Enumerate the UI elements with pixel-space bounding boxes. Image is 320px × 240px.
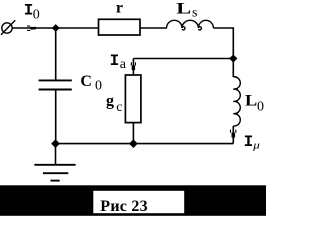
wire: box to bottom rail xyxy=(132,123,134,144)
svg-text:μ: μ xyxy=(252,140,260,151)
svg-text:C: C xyxy=(80,73,92,90)
ground xyxy=(34,144,75,181)
resistor r xyxy=(99,19,141,35)
svg-text:g: g xyxy=(106,92,114,109)
wire: source to resistor xyxy=(12,27,98,29)
caption black band xyxy=(0,185,266,216)
svg-text:0: 0 xyxy=(257,100,264,115)
node junction B (right rail, middle tap) xyxy=(229,54,237,62)
wire: Ia branch down to box xyxy=(132,59,134,76)
wire: coil to top-right corner, down right rail xyxy=(213,28,233,77)
current arrow Ia (downward) xyxy=(131,62,136,71)
current arrow I0 (rightward) xyxy=(27,26,37,32)
svg-text:L: L xyxy=(176,0,191,17)
wire: coil to bottom corner xyxy=(232,126,234,144)
middle horizontal wire xyxy=(133,58,233,60)
inductor L0 (right rail) xyxy=(233,77,240,126)
svg-text:L: L xyxy=(245,91,257,109)
svg-text:Рис 23: Рис 23 xyxy=(100,198,148,215)
current arrow Imu (downward, right rail) xyxy=(230,130,237,139)
wire: left vertical to capacitor xyxy=(55,28,57,80)
node junction C (bottom-left) xyxy=(51,139,60,148)
svg-text:0: 0 xyxy=(33,7,40,22)
wire: capacitor to bottom rail xyxy=(55,90,57,143)
svg-text:s: s xyxy=(192,6,197,21)
svg-text:a: a xyxy=(120,57,127,72)
svg-text:r: r xyxy=(116,0,123,17)
inductor L0 cusp knots xyxy=(233,88,238,91)
bottom rail xyxy=(56,143,234,145)
current source I0 (circle with slash) xyxy=(1,20,15,34)
caption white box xyxy=(93,191,184,213)
wire: resistor to coil Ls xyxy=(140,27,167,29)
svg-text:c: c xyxy=(116,100,122,115)
capacitor C0 xyxy=(39,80,72,89)
conductance box gc xyxy=(125,75,140,123)
svg-text:I: I xyxy=(110,52,120,70)
node junction D (bottom-middle) xyxy=(129,139,138,148)
inductor Ls xyxy=(167,20,214,30)
svg-text:0: 0 xyxy=(95,78,102,93)
node junction A (top-left) xyxy=(52,24,60,32)
svg-text:I: I xyxy=(244,133,254,151)
